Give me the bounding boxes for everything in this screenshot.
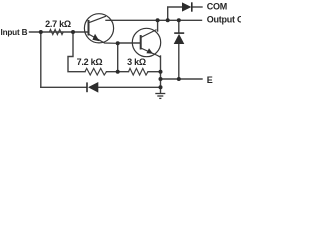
wire Q2 emitter vertical down to ground [160,56,162,93]
wire output row [106,19,202,21]
wire clamp diode vertical lower [178,44,180,79]
wire branch up to COM diode [168,7,182,20]
resistor 7.2 kOhm [85,68,107,75]
svg-text:COM: COM [207,2,227,12]
wire E row [161,78,203,80]
input clamp diode (cathode toward input) [87,82,98,93]
ground [155,94,165,99]
wire input left vertical down to diode row [40,32,42,87]
wire Q1 emitter node down to resistor row [117,43,119,71]
svg-text:Input B: Input B [1,28,28,37]
transistor Q1 [84,14,117,44]
node E row at clamp diode [177,77,181,81]
node resistor row at 7.2k/3k junction [116,70,120,74]
svg-text:3 kΩ: 3 kΩ [127,57,146,67]
svg-text:7.2 kΩ: 7.2 kΩ [77,57,103,67]
node input junction 1 [39,30,43,34]
resistor 2.7 kOhm [49,29,63,34]
wire input dot2 vertical with jog down to 7.2k resistor [68,32,85,72]
svg-text:Output C: Output C [207,14,241,24]
svg-text:2.7 kΩ: 2.7 kΩ [45,19,71,29]
wire COM diode to label [192,6,202,8]
wire input lead from label to base of Q1 [30,31,89,33]
node E row at emitter vertical [159,77,163,81]
wire diode row bottom right segment [99,86,161,88]
wire 7.2k to 3k lead [107,71,129,73]
node resistor row at emitter vertical [159,70,163,74]
wire clamp diode vertical upper [178,20,180,33]
wire diode row bottom left segment [41,86,86,88]
resistor 3 kOhm [129,68,149,75]
node Q1 emitter / Q2 base [116,41,120,45]
clamp diode output to E (cathode up) [174,33,185,44]
node output rail at clamp diode [177,18,181,22]
node output rail at Q2 collector [156,18,160,22]
node diode row at ground vertical [159,85,163,89]
wire Q2 collector vertical [157,20,159,31]
diode to COM (anode at output rail) [182,2,192,11]
wire 3k right lead to emitter vertical [148,71,161,73]
transistor Q2 [132,28,160,57]
wire Q1 emitter node to Q2 base [118,42,141,44]
node output rail at COM branch [166,18,170,22]
node input junction 2 [71,30,75,34]
svg-text:E: E [207,75,213,85]
